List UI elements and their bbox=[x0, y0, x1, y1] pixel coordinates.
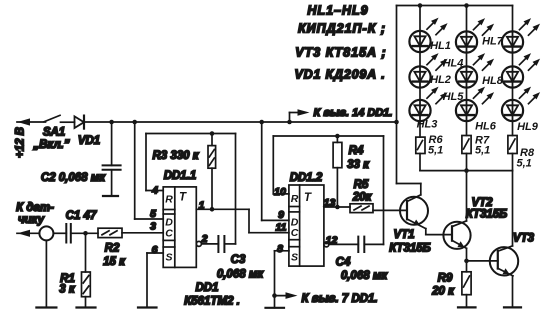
resistor R3 bbox=[208, 146, 216, 169]
resistor R7 bbox=[462, 136, 471, 154]
svg-text:К дат-: К дат- bbox=[16, 202, 54, 214]
junction K vyv 7 tap bbox=[272, 293, 277, 298]
svg-text:4: 4 bbox=[151, 185, 158, 197]
wire DD1.1 feedback loop top bbox=[146, 133, 236, 135]
LED HL7 bbox=[502, 18, 540, 53]
capacitor C3 bbox=[217, 236, 219, 252]
capacitor C2 bbox=[103, 164, 121, 166]
svg-text:1: 1 bbox=[199, 200, 205, 212]
wire DD1.2 S to ground bbox=[274, 251, 276, 308]
pin 10 wire bbox=[273, 193, 289, 195]
svg-text:HL2: HL2 bbox=[430, 74, 451, 86]
junction R4 top bbox=[335, 134, 340, 139]
svg-text:5,1: 5,1 bbox=[517, 158, 532, 170]
junction K vyv 14 on rail bbox=[287, 120, 292, 125]
junction C2 on rail bbox=[109, 120, 114, 125]
ground under DD1.2 bbox=[266, 307, 285, 309]
svg-text:S: S bbox=[165, 252, 172, 264]
svg-text:R3 330 к: R3 330 к bbox=[152, 150, 199, 162]
wire sensor input with arrow bbox=[17, 232, 39, 234]
resistor R6 bbox=[416, 137, 425, 153]
svg-text:HL9: HL9 bbox=[517, 121, 539, 133]
wire rail to C2 bbox=[111, 122, 113, 165]
svg-text:R: R bbox=[165, 194, 173, 206]
wire rail to DD1.2 pin9 (D) bbox=[261, 122, 263, 220]
svg-text:T: T bbox=[304, 192, 312, 204]
svg-text:10: 10 bbox=[274, 186, 286, 198]
svg-text:R4: R4 bbox=[349, 145, 364, 157]
svg-text:чику: чику bbox=[18, 214, 45, 226]
wire R3 top bbox=[211, 134, 213, 146]
svg-text:C1 47: C1 47 bbox=[66, 210, 97, 222]
wire DD1.1 S to ground bbox=[146, 253, 148, 308]
svg-text:КИПД21П-К ;: КИПД21П-К ; bbox=[298, 22, 386, 36]
wire R8 bottom bbox=[512, 154, 514, 171]
wire terminal to C1 bbox=[53, 232, 66, 234]
junction column 1 on bus bbox=[418, 3, 423, 8]
svg-text:DD1.2: DD1.2 bbox=[290, 172, 323, 184]
junction pin9 branch on rail bbox=[259, 120, 264, 125]
svg-text:HL3: HL3 bbox=[417, 119, 438, 131]
svg-text:2: 2 bbox=[201, 233, 208, 245]
resistor R1 bbox=[85, 233, 87, 272]
svg-text:HL7: HL7 bbox=[482, 36, 504, 48]
wire VT3 collector up bbox=[512, 171, 514, 246]
svg-text:VD1: VD1 bbox=[78, 135, 100, 147]
wire rail down to VT1 collector bbox=[396, 6, 398, 184]
LED HL6 bbox=[456, 87, 494, 122]
resistor R2 bbox=[98, 228, 122, 237]
resistor R9 bbox=[466, 261, 468, 272]
svg-text:33 к: 33 к bbox=[347, 159, 370, 171]
svg-text:20к: 20к bbox=[352, 192, 373, 204]
junction LED feed on rail bbox=[394, 120, 399, 125]
svg-text:R5: R5 bbox=[354, 179, 369, 191]
LED HL3 bbox=[409, 87, 447, 122]
svg-text:C: C bbox=[165, 228, 173, 240]
svg-text:„Вкл.”: „Вкл.” bbox=[32, 139, 70, 151]
junction R7/VT2 collector bbox=[464, 168, 469, 173]
svg-text:К561ТМ2 .: К561ТМ2 . bbox=[184, 296, 240, 308]
ground under R1 bbox=[77, 306, 96, 308]
wire VT2 collector up bbox=[466, 171, 468, 221]
svg-text:HL6: HL6 bbox=[475, 121, 497, 133]
wire C3 riser to loop bbox=[235, 134, 237, 244]
svg-text:6: 6 bbox=[152, 244, 158, 256]
LED HL4 bbox=[456, 18, 494, 53]
resistor R4 bbox=[333, 142, 342, 167]
wire DD1.1 feedback loop left bbox=[145, 134, 147, 191]
pin 4 wire bbox=[146, 190, 163, 192]
node +12V arrow bbox=[18, 118, 31, 125]
wire R1 to ground bbox=[85, 297, 87, 308]
op DD1.1 box bbox=[163, 187, 196, 268]
svg-text:T: T bbox=[179, 192, 187, 204]
LED HL8 bbox=[502, 53, 540, 88]
junction column 2 on bus bbox=[464, 3, 469, 8]
transistor VT3 bbox=[490, 247, 518, 275]
svg-text:К выв. 14 DD1.: К выв. 14 DD1. bbox=[314, 107, 393, 119]
LED HL1 bbox=[409, 18, 447, 53]
node K vyv 14 arrow bbox=[289, 113, 291, 123]
ground under VT3 bbox=[504, 306, 521, 308]
svg-text:VT3 КТ815А ;: VT3 КТ815А ; bbox=[295, 46, 386, 60]
LED HL2 bbox=[409, 53, 447, 88]
svg-text:+12 В: +12 В bbox=[15, 127, 27, 158]
junction pin5 branch on rail bbox=[132, 120, 137, 125]
svg-text:HL1: HL1 bbox=[430, 40, 451, 52]
pin 12 output circle bbox=[324, 242, 329, 247]
resistor R5 bbox=[350, 204, 373, 213]
svg-text:VT3: VT3 bbox=[513, 233, 535, 245]
svg-text:VT1: VT1 bbox=[393, 229, 414, 241]
svg-text:3 к: 3 к bbox=[59, 284, 76, 296]
pin 2 output circle bbox=[196, 241, 201, 246]
wire R7 bottom bbox=[466, 154, 468, 171]
svg-text:КТ315Б: КТ315Б bbox=[389, 243, 431, 255]
LED HL5 bbox=[456, 53, 494, 88]
svg-text:11: 11 bbox=[276, 222, 287, 234]
terminal circle bbox=[39, 226, 53, 240]
capacitor C4 bbox=[357, 237, 359, 252]
svg-text:9: 9 bbox=[278, 209, 284, 221]
pin 6 wire bbox=[147, 252, 163, 254]
wire R6 bottom bbox=[419, 154, 421, 171]
svg-text:5,1: 5,1 bbox=[475, 145, 490, 157]
junction VT2 emitter / R9 / VT3 base bbox=[464, 259, 469, 264]
svg-text:0,068 мк: 0,068 мк bbox=[217, 269, 264, 281]
svg-text:12: 12 bbox=[326, 235, 338, 247]
wire VT2 emitter to VT3 base bbox=[467, 260, 498, 262]
svg-text:DD1.1: DD1.1 bbox=[164, 170, 197, 182]
svg-text:HL1–HL9: HL1–HL9 bbox=[307, 4, 368, 18]
svg-text:HL8: HL8 bbox=[482, 75, 504, 87]
wire R5 to VT1 base bbox=[373, 209, 407, 211]
svg-text:C4: C4 bbox=[336, 257, 351, 269]
svg-text:5,1: 5,1 bbox=[428, 145, 443, 157]
pin 1 output wire bbox=[196, 208, 249, 210]
transistor VT1 bbox=[400, 197, 428, 225]
svg-text:R: R bbox=[291, 193, 299, 205]
op DD1.2 box bbox=[289, 185, 324, 266]
svg-text:13: 13 bbox=[324, 197, 336, 209]
ground under C2 bbox=[103, 195, 118, 197]
svg-text:0,068 мк: 0,068 мк bbox=[341, 270, 388, 282]
svg-text:КТ315Б: КТ315Б bbox=[466, 209, 508, 221]
diode VD1 bbox=[75, 116, 85, 128]
capacitor C1 bbox=[65, 224, 67, 243]
wire DD1.2 feedback loop top bbox=[273, 135, 383, 137]
switch SA1 bbox=[44, 115, 60, 122]
wire R3 bottom bbox=[211, 168, 213, 209]
wire terminal to ground bbox=[45, 240, 47, 307]
svg-text:VT2: VT2 bbox=[471, 197, 493, 209]
wire R4 bottom bbox=[336, 168, 338, 207]
svg-text:C2 0,068 мк: C2 0,068 мк bbox=[41, 172, 106, 184]
wire C1 to R2 bbox=[71, 232, 98, 234]
wire +12V rail bbox=[17, 121, 46, 123]
node junction C1/R1/R2 bbox=[83, 231, 88, 236]
wire rail to DD1.1 pin5 (D) bbox=[134, 122, 136, 219]
svg-text:DD1: DD1 bbox=[195, 282, 218, 294]
wire LED column 3 bbox=[512, 6, 514, 32]
wire collector tie line bbox=[420, 170, 513, 172]
svg-text:3: 3 bbox=[150, 221, 156, 233]
wire C4 riser to loop bbox=[383, 136, 385, 244]
LED HL9 bbox=[502, 87, 540, 122]
junction R3 bottom on pin1 net bbox=[210, 207, 215, 212]
svg-text:C: C bbox=[291, 227, 299, 239]
pin 13 wire bbox=[324, 206, 350, 208]
svg-text:VD1 КД209А .: VD1 КД209А . bbox=[295, 68, 386, 82]
ground under DD1.1 bbox=[138, 306, 157, 308]
transistor VT2 bbox=[443, 222, 470, 249]
svg-text:SA1: SA1 bbox=[43, 127, 65, 139]
svg-text:15 к: 15 к bbox=[103, 256, 126, 268]
node K vyv 7 arrow bbox=[275, 295, 292, 297]
wire step pin1 to DD1.2 pin 11 bbox=[248, 209, 250, 232]
svg-text:R2: R2 bbox=[105, 243, 120, 255]
ground under R9 bbox=[458, 306, 476, 308]
svg-text:5: 5 bbox=[150, 208, 156, 220]
wire LED column 2 bbox=[466, 6, 468, 32]
svg-text:8: 8 bbox=[277, 243, 283, 255]
wire +12V rail bbox=[84, 121, 397, 123]
svg-text:20 к: 20 к bbox=[431, 286, 455, 298]
wire R4 top bbox=[336, 136, 338, 142]
wire LED column 1 bbox=[419, 6, 421, 32]
junction R3 top bbox=[210, 131, 215, 136]
ground under terminal bbox=[36, 306, 56, 308]
resistor R8 bbox=[508, 136, 517, 154]
wire LED top bus bbox=[397, 5, 513, 7]
svg-text:C3: C3 bbox=[231, 254, 246, 266]
wire DD1.2 feedback loop left bbox=[272, 136, 274, 194]
svg-text:К выв. 7 DD1.: К выв. 7 DD1. bbox=[302, 293, 378, 305]
junction R4 bottom on pin13 net bbox=[335, 205, 340, 210]
svg-text:R9: R9 bbox=[438, 273, 453, 285]
wire R2 to DD1.1 pin3 bbox=[122, 232, 163, 234]
pin 8 wire bbox=[275, 250, 289, 252]
svg-text:S: S bbox=[291, 252, 298, 264]
